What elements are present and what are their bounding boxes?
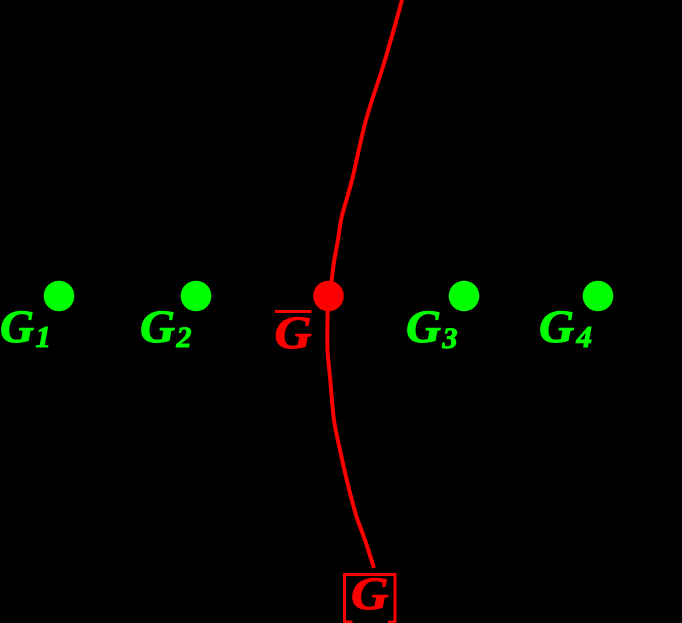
svg-text:G: G [351, 568, 389, 620]
svg-text:G: G [539, 301, 574, 353]
wire: red curve through node G-bar from top edge to box G [327, 0, 402, 568]
label G4 [539, 301, 592, 354]
svg-text:G: G [275, 307, 312, 359]
label G3 [406, 301, 458, 355]
svg-text:4: 4 [576, 319, 593, 354]
node G2 dot [181, 281, 212, 312]
svg-text:G: G [140, 301, 175, 353]
node G4 dot [583, 281, 614, 312]
node G-bar dot (red) [313, 281, 344, 312]
label G1 [0, 301, 51, 354]
svg-text:2: 2 [176, 321, 192, 354]
svg-text:G: G [406, 301, 441, 353]
svg-text:3: 3 [442, 322, 458, 355]
svg-text:G: G [0, 301, 34, 353]
label G-bar (red) [275, 307, 312, 359]
node G3 dot [449, 281, 480, 312]
boxed label G at bottom [343, 568, 397, 623]
label G2 [140, 301, 192, 354]
svg-text:1: 1 [36, 319, 52, 354]
node G1 dot [44, 281, 75, 312]
